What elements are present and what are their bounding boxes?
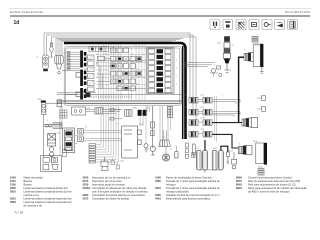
hatch plate bottom [258,169,264,175]
drain stub [226,152,229,163]
toolbar icon 7 [288,20,298,30]
svg-text:Painel de sinalização de baixo: Painel de sinalização de baixo Comfort [166,175,212,179]
svg-text:2200: 2200 [83,175,89,179]
svg-text:1125: 1125 [86,108,90,110]
relay panel right [147,48,175,94]
svg-text:16: 16 [232,44,234,46]
battery ground bar bottom [264,143,267,165]
ground stub top [260,67,263,73]
svg-text:BB10: BB10 [133,108,137,110]
svg-text:2: 2 [119,110,120,112]
svg-text:8: 8 [76,126,77,128]
wire bundle vertical inside BSI [104,45,146,101]
ignition to starter wire [51,157,53,164]
starter cluster [41,156,62,172]
svg-text:2: 2 [222,96,223,98]
legend col4 [236,175,307,193]
ladder connector [168,107,173,118]
diag connector grid [60,110,67,118]
svg-text:C004: C004 [200,129,204,131]
connector pair row 1 [189,96,266,111]
svg-text:2260: 2260 [120,161,124,163]
svg-text:15: 15 [96,77,98,79]
svg-text:2620: 2620 [10,200,16,204]
svg-text:Bateria: Bateria [24,179,33,183]
svg-text:2230: 2230 [83,182,89,186]
svg-text:7: 7 [176,76,177,78]
svg-text:8070: 8070 [195,148,199,150]
key switch small box [63,150,67,157]
svg-text:2615: 2615 [10,196,16,200]
svg-text:10: 10 [96,54,98,56]
svg-text:3: 3 [176,60,177,62]
toolbar icon 4 [249,20,259,30]
svg-text:15: 15 [37,57,39,59]
antenna sensor [50,43,53,58]
terminal row boxes [89,144,96,163]
svg-text:2275: 2275 [83,196,89,200]
svg-text:Interruptor geral de corrente: Interruptor geral de corrente [92,182,125,186]
hatch plate top [252,36,258,42]
svg-text:2610: 2610 [49,57,53,59]
svg-text:BB00: BB00 [255,45,259,47]
wire [46,102,67,104]
comb tag [192,152,195,157]
svg-text:reboque (adicional): reboque (adicional) [166,189,189,193]
svg-text:8: 8 [132,54,133,56]
bus stub connectors [62,71,90,97]
svg-text:Tomada de 7 pinos para instala: Tomada de 7 pinos para instalação elétri… [166,186,220,190]
svg-text:4: 4 [214,65,215,67]
svg-text:4: 4 [106,85,107,87]
comb base link [199,170,221,173]
svg-text:Central eletrônica para baixo: Central eletrônica para baixo Comfort [248,175,292,179]
interior bus wires [96,59,146,89]
ground bus bar vertical [80,51,86,100]
svg-text:Lanterna traseira completa dir: Lanterna traseira completa direita (luz [24,186,69,190]
svg-text:8070: 8070 [236,179,242,183]
relay comb B [212,150,223,170]
svg-text:12: 12 [163,137,165,139]
relay comb A [196,150,207,170]
svg-text:4300: 4300 [155,193,161,197]
svg-text:EcoTech / Fontes do Circuito: EcoTech / Fontes do Circuito [10,10,44,14]
bead chain sensor [150,106,154,148]
svg-text:2: 2 [160,146,161,148]
svg-text:4410: 4410 [155,196,161,200]
4-way connector plug [55,56,63,74]
svg-text:9: 9 [176,84,177,86]
connector pins left [67,51,80,69]
svg-text:Unidade Central de Intercomuni: Unidade Central de Intercomunicação (U.C… [166,193,220,197]
svg-text:C003: C003 [200,118,204,120]
toolbar icon 3 [236,20,246,30]
BSI outer box [64,47,181,106]
svg-text:7: 7 [106,69,107,71]
svg-text:2245A: 2245A [83,186,91,190]
heavy cable to row3 [239,57,244,122]
svg-text:4305: 4305 [140,124,144,126]
svg-text:Buzina: Buzina [24,182,33,186]
pneumatic horn symbol [101,157,108,170]
terminal tags bottom [111,158,119,169]
svg-text:12: 12 [96,63,98,65]
svg-text:Interruptor de luz de marcha à: Interruptor de luz de marcha à ré [92,175,131,179]
svg-text:2605: 2605 [38,99,42,101]
svg-text:8: 8 [103,109,104,111]
svg-text:Tomada de 7 pinos para instala: Tomada de 7 pinos para instalação elétri… [166,179,220,183]
svg-text:2100: 2100 [10,182,16,186]
fuse grid [98,48,142,90]
svg-text:Lanterna traseira completa dir: Lanterna traseira completa direita (luz … [24,189,73,193]
svg-text:4: 4 [47,120,48,122]
comb feed wires [204,140,206,150]
fuse marks [112,57,141,89]
svg-text:Interruptor de luz de freio: Interruptor de luz de freio [92,179,122,183]
svg-text:4210: 4210 [155,186,161,190]
interior mesh wires [96,48,146,100]
svg-text:Relé para acionamento de buzin: Relé para acionamento de buzina (D.12) [248,182,296,186]
svg-text:C001: C001 [200,95,204,97]
svg-text:Motor de partida: Motor de partida [24,175,44,179]
svg-text:CA00: CA00 [258,165,263,168]
legend col2 [83,175,148,200]
svg-text:2100: 2100 [145,149,149,151]
connector block 2way [72,107,86,115]
branch wires below bus [60,106,171,156]
svg-text:8645: 8645 [213,148,217,150]
svg-text:Eletroválvula para buzina pneu: Eletroválvula para buzina pneumática [166,196,211,200]
svg-text:C002: C002 [200,107,204,109]
svg-text:de marcha a ré): de marcha a ré) [24,203,43,207]
svg-text:Rede para acionamento de módul: Rede para acionamento de módulo de infor… [248,186,307,190]
fuse links black [138,110,147,116]
horn round [144,106,156,155]
terminal stubs [110,109,122,120]
terminal strip dashes [89,95,132,97]
BSI label strip [89,47,109,52]
svg-text:Comutador de buzina elétrica o: Comutador de buzina elétrica ou pneumáti… [92,193,145,197]
switch column inside BSI [84,55,94,91]
svg-text:1010: 1010 [10,179,16,183]
crossing wires [215,96,217,142]
svg-text:do ABS e luzes de freio de reb: do ABS e luzes de freio de reboque [248,189,290,193]
svg-text:7: 7 [185,118,186,120]
striped junction box [125,110,132,117]
motor M [162,146,178,161]
svg-text:10: 10 [85,126,87,128]
legend col1 [10,175,72,207]
UCI module box [122,126,142,158]
svg-text:Comutador de alavancas de colu: Comutador de alavancas de coluna de dire… [92,186,147,190]
svg-text:5: 5 [176,68,177,70]
svg-text:2610: 2610 [10,189,16,193]
brake lamp left [41,101,46,115]
harness connector [95,108,103,114]
svg-text:8: 8 [230,70,231,72]
stalk switch block [63,128,75,153]
wire loop bundle top-left [44,33,196,120]
battery positive box top [253,44,260,67]
svg-text:8940: 8940 [236,186,242,190]
battery ground bar top [260,44,263,67]
wire fan to terminals [96,106,119,162]
svg-text:12: 12 [185,107,187,109]
svg-text:2: 2 [244,50,245,52]
svg-text:30: 30 [105,54,107,56]
svg-text:Comutador de chave de partida: Comutador de chave de partida [92,196,130,200]
header rule [10,15,310,17]
svg-text:5: 5 [222,108,223,110]
toolbar icon 2 [223,20,233,30]
ignition switch column [48,134,56,157]
svg-text:8645: 8645 [236,182,242,186]
fan connector trapezoid [159,130,171,147]
svg-text:12: 12 [147,108,149,110]
connector pair row 3 [189,120,242,126]
connector pair row 2 [189,109,240,117]
heavy feed wire pair [182,46,184,139]
toolbar icon 1 [210,20,220,30]
toolbar icon 6 [275,20,285,30]
svg-text:6: 6 [239,144,240,146]
svg-text:9: 9 [185,129,186,131]
svg-text:2275: 2275 [57,133,61,135]
connector pair row 4 [189,131,238,148]
wire [86,110,120,114]
svg-text:8000: 8000 [236,175,242,179]
svg-text:2605: 2605 [10,186,16,190]
svg-text:9: 9 [117,124,118,126]
svg-text:1: 1 [97,142,98,144]
svg-text:6: 6 [143,54,144,56]
svg-text:1000: 1000 [10,175,16,179]
svg-text:35: 35 [143,77,145,79]
wires BSI to right [182,63,216,67]
wires mid-left [75,131,122,144]
svg-text:40: 40 [136,84,138,86]
svg-text:Relé de acionamento das luzes: Relé de acionamento das luzes de freio (… [248,179,300,183]
svg-text:reboque: reboque [166,182,176,186]
bottom bus wires [57,93,183,103]
svg-text:1: 1 [176,52,177,54]
svg-text:com 6 funções (indicador de di: com 6 funções (indicador de direção e bu… [92,189,148,193]
svg-text:Lanterna traseira completa esq: Lanterna traseira completa esquerda (luz [24,196,73,200]
horn contact pair [44,123,62,129]
svg-text:34: 34 [185,95,187,97]
plug row3 [242,117,258,127]
ignition coil stack [223,37,230,73]
svg-text:MR 10 2002 07:30:52: MR 10 2002 07:30:52 [285,10,311,14]
svg-text:V2: V2 [125,48,127,50]
battery plug top [244,52,253,61]
svg-text:4205: 4205 [155,179,161,183]
svg-text:3: 3 [60,147,61,149]
svg-text:4100: 4100 [155,175,161,179]
svg-text:1d: 1d [14,20,20,26]
sensor cluster small [210,66,222,77]
svg-text:MC10: MC10 [253,141,258,143]
svg-text:4410: 4410 [229,150,233,152]
supply bus bar top (thick) [64,43,186,139]
svg-text:Lanterna traseira completa esq: Lanterna traseira completa esquerda (luz [24,200,73,204]
solenoid valve [231,152,236,169]
rear lamp right [43,55,48,71]
svg-text:2260: 2260 [83,193,89,197]
toolbar icon 5 [262,20,272,30]
page top edge line [9,8,311,10]
inline fuse chain [185,143,195,158]
battery positive box bottom [256,143,264,164]
lamp feed wire [43,115,45,157]
svg-text:12: 12 [64,53,66,55]
svg-text:70 / 98: 70 / 98 [14,211,24,215]
svg-text:1135: 1135 [217,43,221,45]
component id labels [37,43,263,169]
svg-text:marcha a ré): marcha a ré) [24,193,39,197]
svg-text:21: 21 [136,69,138,71]
battery plug bottom [238,145,252,154]
svg-text:2215: 2215 [83,179,89,183]
switch pair [78,128,84,141]
fuse holder pair [57,100,62,107]
legend col3 [155,175,220,200]
svg-text:V1: V1 [112,48,114,50]
